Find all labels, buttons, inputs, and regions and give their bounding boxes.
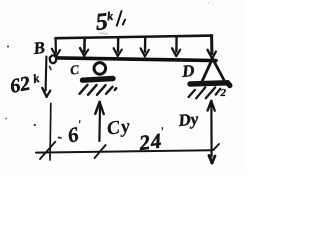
load arrow 5 [172,37,180,57]
roller support C ground bar [83,79,114,81]
label 62k [8,71,42,98]
pin support D hatching [189,87,221,98]
pin support D triangle [202,59,224,82]
beam B-D [51,58,217,61]
distributed load box top edge [56,36,213,39]
reaction Dy arrow [208,101,215,163]
svg-text:D: D [180,61,195,81]
svg-text:Cy: Cy [106,116,133,140]
tick at B [40,142,55,159]
svg-text:2: 2 [220,87,227,99]
load arrow 1 (left edge) [52,38,60,56]
svg-text:62: 62 [8,72,32,97]
dimension 24 ft [137,126,167,156]
stray dash 2 [59,137,62,140]
load arrow 6 (right edge) [208,36,216,59]
tick at C [95,145,106,158]
label w = 5 k/ft [94,7,126,36]
dimension 6 ft [65,119,86,148]
svg-text:B: B [32,38,46,58]
roller support C circle [94,63,106,75]
svg-text:24: 24 [137,128,163,155]
reaction Cy arrow [95,102,104,141]
node B loop [50,55,56,63]
extension line at B [49,104,52,161]
force 62k arrow at B [42,57,50,97]
smudge under 5 [100,32,107,35]
roller support C hatching [80,85,117,95]
svg-text:Dy: Dy [176,109,199,130]
stray dot left of B [7,46,9,48]
load arrow 3 [114,37,122,56]
load arrow 4 [141,37,149,56]
tick at D [213,144,219,150]
load arrow 2 [80,38,88,56]
faint specks top right [208,2,209,3]
flick below B loop [50,67,52,70]
stray dot 3 [34,124,36,126]
pin support D ground bar [190,83,230,86]
stray dot 1 [5,118,7,120]
dimension line [36,150,213,152]
